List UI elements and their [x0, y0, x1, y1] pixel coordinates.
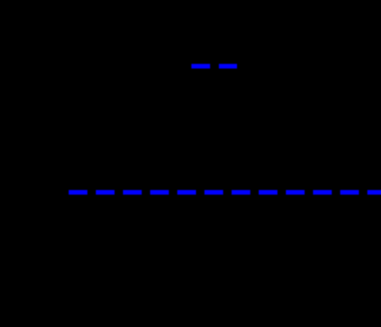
horizontal dashed data line	[69, 190, 381, 195]
legend line sample (blue dashed)	[191, 64, 237, 69]
